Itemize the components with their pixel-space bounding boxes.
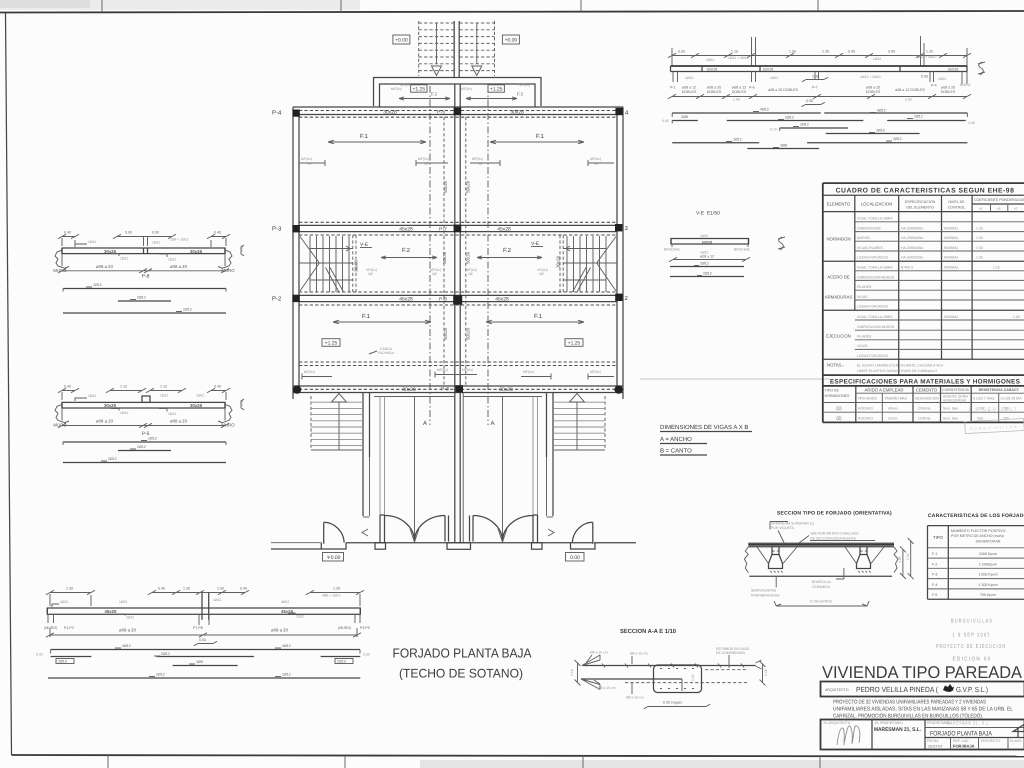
- svg-text:1Ø12: 1Ø12: [700, 234, 708, 238]
- svg-text:B-400 S: B-400 S: [901, 266, 914, 270]
- porch column left: [375, 397, 386, 550]
- level box +1.25 bottom-right: [565, 339, 583, 347]
- dashed lines above bottom beam: [299, 362, 617, 366]
- architect box: [821, 682, 1024, 697]
- svg-text:EL PROPIETARIO: EL PROPIETARIO: [875, 721, 903, 725]
- svg-text:45x28: 45x28: [495, 296, 509, 302]
- beam label P-7: [439, 226, 447, 232]
- rotated labels 50x28 center wall bottom room: [443, 328, 471, 340]
- svg-text:VIGAS: VIGAS: [857, 295, 868, 299]
- svg-text:1Ø: 1Ø: [368, 272, 373, 276]
- svg-text:0.40: 0.40: [240, 587, 247, 591]
- column P-3 right (3): [615, 224, 622, 231]
- svg-text:50x28: 50x28: [443, 328, 448, 340]
- svg-text:MF(Xx): MF(Xx): [590, 157, 601, 161]
- svg-text:POR METRO DE ANCHO (mxKp: POR METRO DE ANCHO (mxKp: [951, 534, 1004, 538]
- svg-text:1Ø12: 1Ø12: [706, 58, 714, 62]
- svg-text:4Ø12: 4Ø12: [60, 600, 68, 604]
- level box 0.00 right: [566, 553, 585, 562]
- F.2 label right: [477, 247, 542, 259]
- beam bar top-right: [671, 66, 968, 72]
- svg-text:P-3: P-3: [272, 226, 282, 233]
- svg-text:3Ø8: 3Ø8: [780, 144, 787, 148]
- svg-text:CEMENTO: CEMENTO: [916, 388, 938, 393]
- svg-text:MF(Xx): MF(Xx): [437, 368, 448, 372]
- supports below beam bar: [673, 72, 967, 85]
- seccion A-A dashes right: [625, 670, 749, 683]
- svg-text:(1): (1): [836, 406, 842, 411]
- svg-text:F.1: F.1: [362, 313, 371, 320]
- svg-text:0.30 (vigas): 0.30 (vigas): [663, 701, 682, 705]
- svg-text:1.50: 1.50: [789, 50, 796, 54]
- svg-text:10-07-07: 10-07-07: [928, 745, 942, 749]
- svg-text:2Ø8: 2Ø8: [681, 115, 688, 119]
- beam label 30x28 top right: [510, 109, 524, 115]
- svg-text:4Ø8 + 2Ø12: 4Ø8 + 2Ø12: [322, 594, 341, 598]
- svg-text:DE COMPRESION: DE COMPRESION: [716, 651, 745, 655]
- dim ticks bottom room: [302, 368, 477, 380]
- svg-text:MF(Xx): MF(Xx): [304, 370, 315, 374]
- svg-text:MF(Xx): MF(Xx): [462, 368, 473, 372]
- svg-text:DOBLES: DOBLES: [866, 90, 881, 94]
- seccion A-A bottom dim: [644, 701, 710, 709]
- seccion A-A left hooks: [581, 655, 600, 690]
- F.1 label bottom-right room: [486, 313, 584, 324]
- svg-text:F.2: F.2: [402, 247, 411, 254]
- svg-text:F.1: F.1: [534, 313, 543, 320]
- svg-text:0.08: 0.08: [764, 669, 768, 676]
- svg-text:2Ø12: 2Ø12: [161, 652, 170, 656]
- beam bar P1P2: [47, 593, 360, 620]
- svg-text:0.50: 0.50: [199, 638, 206, 642]
- column P-3 left: [292, 225, 299, 232]
- svg-text:0.30: 0.30: [906, 553, 910, 560]
- svg-text:1.10: 1.10: [160, 385, 167, 389]
- svg-text:A: A: [491, 420, 495, 427]
- svg-text:1Ø12: 1Ø12: [88, 394, 96, 398]
- signature block frame: [821, 720, 1024, 750]
- especificaciones title: [823, 375, 1024, 422]
- beam label 30x28 top left: [383, 109, 397, 115]
- svg-text:F-1: F-1: [932, 552, 937, 556]
- level box +1.25 bottom-left: [322, 339, 340, 347]
- svg-text:0.40: 0.40: [158, 587, 165, 591]
- svg-text:+1.25: +1.25: [568, 341, 581, 347]
- svg-text:MOMENTO FLECTOR POSITIVO: MOMENTO FLECTOR POSITIVO: [951, 529, 1006, 533]
- rotated labels 50x28 center wall top room: [443, 181, 471, 193]
- F.1 label top-right room: [490, 133, 584, 144]
- beam 30x28 bottom: [293, 386, 623, 393]
- column P-5 top center: [454, 108, 462, 116]
- svg-text:IGUAL TODA LA OBRA: IGUAL TODA LA OBRA: [857, 217, 893, 221]
- beam 45x28 P-2: [299, 292, 617, 305]
- rebar row5: [672, 137, 967, 143]
- V-E rebar lines: [670, 262, 744, 267]
- svg-text:ELEMENTO: ELEMENTO: [827, 202, 851, 207]
- center wall base notch: [447, 543, 471, 550]
- carga fachada note: [369, 347, 395, 355]
- rotated labels 50x28 center wall middle band: [442, 252, 471, 264]
- column P-7 center: [454, 225, 462, 233]
- svg-text:CIMENTACION: CIMENTACION: [857, 226, 881, 230]
- svg-text:MF(Xx): MF(Xx): [301, 157, 312, 161]
- V-E title: [696, 211, 720, 217]
- rebar lines below P-5: [63, 437, 226, 446]
- dims above P-8 detail: [58, 231, 230, 248]
- svg-text:P-8: P-8: [142, 274, 150, 280]
- svg-text:1Ø12: 1Ø12: [770, 76, 778, 80]
- svg-text:A LOS 7 DIAS: A LOS 7 DIAS: [973, 397, 995, 401]
- svg-text:1Ø12 + 4Ø12: 1Ø12 + 4Ø12: [916, 55, 937, 59]
- svg-text:F.3: F.3: [517, 91, 523, 96]
- vigueta left: [769, 547, 783, 573]
- svg-text:ø08 a 20: ø08 a 20: [170, 419, 188, 424]
- svg-text:50x28: 50x28: [466, 328, 471, 340]
- svg-text:SECCION TIPO DE FORJADO (ORIEN: SECCION TIPO DE FORJADO (ORIENTATIVA): [777, 511, 892, 517]
- svg-text:2Ø12: 2Ø12: [108, 457, 117, 461]
- grid label 3: [625, 225, 629, 232]
- table frame: [823, 183, 1024, 375]
- signature scribble: [837, 726, 860, 745]
- svg-text:HA-25/B/20/IIa: HA-25/B/20/IIa: [901, 246, 923, 250]
- fold mark top-right: [581, 0, 818, 12]
- svg-text:1Ø12: 1Ø12: [213, 598, 221, 602]
- rebar row1: [672, 108, 967, 118]
- svg-text:NORMAL: NORMAL: [944, 246, 959, 250]
- svg-text:PROYECTO DE 32 VIVIENDAS UNIFA: PROYECTO DE 32 VIVIENDAS UNIFAMILIARES P…: [833, 700, 986, 706]
- rebar row4 P1P2: [48, 673, 360, 679]
- svg-text:Ø8 a 15 cm: Ø8 a 15 cm: [598, 686, 616, 690]
- svg-text:LOSAS-FORJADOS: LOSAS-FORJADOS: [857, 305, 889, 309]
- svg-text:VIGAS: VIGAS: [857, 344, 868, 348]
- svg-text:PROYECTO DE EJECUCION: PROYECTO DE EJECUCION: [936, 644, 1006, 650]
- svg-text:2Ø12: 2Ø12: [126, 616, 134, 620]
- svg-text:45x28: 45x28: [399, 226, 413, 232]
- tiny labels around bar P1P2: [52, 598, 304, 620]
- svg-text:P7,P8: P7,P8: [193, 626, 203, 630]
- svg-text:ø08 a 12: ø08 a 12: [682, 86, 696, 90]
- rebar row3: [770, 123, 848, 132]
- stamp proyecto de ejecucion: [936, 644, 1006, 650]
- porch wall right: [547, 393, 554, 517]
- DIMENSIONES notes: [660, 424, 752, 432]
- faint stamp over table: [965, 407, 1024, 434]
- V-E beam bar: [671, 234, 749, 244]
- svg-text:TIPO DE: TIPO DE: [825, 389, 840, 393]
- svg-text:1Ø: 1Ø: [539, 272, 544, 276]
- svg-text:IGUAL TODA LA OBRA: IGUAL TODA LA OBRA: [857, 315, 893, 319]
- svg-text:A = ANCHO: A = ANCHO: [660, 436, 692, 443]
- exterior door right: [572, 522, 593, 544]
- column P-8 bottom center: [455, 385, 463, 392]
- fold mark top-mid: [340, 0, 342, 12]
- svg-text:1Ø: 1Ø: [594, 162, 599, 166]
- left break edge: [744, 547, 748, 573]
- svg-text:P-4: P-4: [272, 110, 282, 117]
- svg-text:MF(Xx): MF(Xx): [461, 87, 472, 91]
- section line A-A right: [488, 86, 495, 427]
- svg-text:F-4: F-4: [932, 583, 937, 587]
- svg-text:0.70m APROX: 0.70m APROX: [810, 600, 833, 604]
- section line A-A left: [423, 86, 430, 427]
- svg-text:ARQUITECTO: ARQUITECTO: [825, 688, 849, 692]
- svg-text:P-2: P-2: [272, 296, 282, 303]
- svg-text:CONTROL: CONTROL: [948, 206, 966, 210]
- svg-text:50X28: 50X28: [763, 68, 773, 72]
- svg-text:ø08 a 20: ø08 a 20: [170, 264, 188, 269]
- svg-text:30x28: 30x28: [190, 249, 203, 254]
- svg-text:2Ø12: 2Ø12: [183, 308, 192, 312]
- svg-text:LOCALIZACION: LOCALIZACION: [861, 202, 893, 207]
- beam label 45x28 P-3 left: [399, 226, 413, 232]
- svg-text:30x28: 30x28: [402, 387, 416, 393]
- dim 0.08 right P-5: [240, 399, 244, 410]
- svg-text:1Ø8 + 1Ø12: 1Ø8 + 1Ø12: [170, 238, 189, 242]
- double door left dwelling: [385, 516, 445, 543]
- svg-text:SIN MAYORAR: SIN MAYORAR: [976, 540, 1001, 544]
- svg-text:HA-25/B/40/IIa: HA-25/B/40/IIa: [901, 236, 923, 240]
- svg-text:2Ø12: 2Ø12: [703, 272, 712, 276]
- svg-text:1Ø12: 1Ø12: [120, 257, 128, 261]
- porch wall left: [363, 393, 370, 517]
- caracteristicas table: [928, 526, 1024, 600]
- svg-text:Ø8 a 15 cm: Ø8 a 15 cm: [590, 651, 608, 655]
- svg-text:ø08 a 20 DOBLES: ø08 a 20 DOBLES: [768, 88, 798, 92]
- svg-text:1Ø12: 1Ø12: [119, 600, 127, 604]
- svg-text:2Ø12: 2Ø12: [137, 445, 146, 449]
- svg-text:4Ø12: 4Ø12: [877, 109, 886, 113]
- svg-text:2Ø10: 2Ø10: [337, 660, 346, 664]
- svg-text:(TECHO DE SOTANO): (TECHO DE SOTANO): [399, 667, 523, 681]
- svg-text:+1.25: +1.25: [325, 341, 338, 347]
- door jambs: [445, 516, 473, 542]
- dashed partition middle band left: [354, 235, 359, 292]
- svg-text:0.40: 0.40: [214, 231, 221, 235]
- stamp edicion: [953, 657, 992, 663]
- svg-text:ø08 a 20: ø08 a 20: [866, 86, 880, 90]
- svg-text:1Ø12: 1Ø12: [685, 76, 693, 80]
- svg-text:1.50: 1.50: [217, 587, 224, 591]
- svg-text:P-7: P-7: [812, 86, 818, 90]
- svg-text:MF(Xx): MF(Xx): [523, 370, 534, 374]
- svg-text:DOBLES: DOBLES: [682, 90, 697, 94]
- rebar lines below P-8: [63, 283, 226, 292]
- scan shading top: [0, 0, 360, 10]
- svg-text:1.30: 1.30: [66, 587, 73, 591]
- svg-text:1Ø12: 1Ø12: [873, 57, 881, 61]
- V-E brochal labels: [664, 244, 751, 252]
- rebar row6: [747, 144, 819, 149]
- svg-text:HORMIGON: HORMIGON: [826, 237, 850, 242]
- svg-text:PILARES: PILARES: [857, 285, 872, 289]
- svg-text:2Ø12: 2Ø12: [93, 283, 102, 287]
- rebar row2: [662, 115, 975, 126]
- dim below P-5 detail: [58, 419, 229, 438]
- svg-text:0.95: 0.95: [888, 50, 895, 54]
- F.1 label bottom-left room: [333, 313, 431, 324]
- guide verticals above beam: [672, 36, 967, 66]
- level box +0.00 left: [393, 35, 410, 44]
- svg-text:LOSAS-FORJADOS: LOSAS-FORJADOS: [857, 354, 889, 358]
- svg-text:ø08 a 20: ø08 a 20: [119, 628, 137, 633]
- ejecucion rows: [823, 315, 1024, 359]
- rebar spec text row: [670, 83, 971, 94]
- el arquitecto cell: [824, 721, 851, 725]
- svg-text:BROCHAL: BROCHAL: [664, 248, 681, 252]
- svg-text:45x28: 45x28: [497, 226, 511, 232]
- svg-text:0.70: 0.70: [770, 128, 777, 132]
- svg-text:1Ø12 + 2Ø10: 1Ø12 + 2Ø10: [860, 75, 881, 79]
- svg-text:SEMIVIGUETAS: SEMIVIGUETAS: [751, 589, 777, 593]
- svg-text:1.30: 1.30: [822, 50, 829, 54]
- svg-text:COEFICIENTE PONDERACION: COEFICIENTE PONDERACION: [974, 198, 1024, 202]
- el propietario cell: [874, 721, 921, 733]
- svg-text:0.25: 0.25: [898, 556, 902, 563]
- svg-text:1.50: 1.50: [976, 246, 983, 250]
- svg-text:30x28: 30x28: [104, 249, 117, 254]
- armadura superior label: [770, 522, 814, 543]
- double door right dwelling: [473, 516, 533, 543]
- svg-text:+0.00: +0.00: [395, 38, 408, 44]
- svg-text:2Ø12: 2Ø12: [296, 615, 304, 619]
- svg-text:2Ø10: 2Ø10: [876, 129, 885, 133]
- ground line: [271, 543, 636, 549]
- svg-text:ø08 a 20: ø08 a 20: [96, 264, 114, 269]
- svg-text:45x28: 45x28: [399, 296, 413, 302]
- rebar row3 P1P2: [173, 660, 238, 666]
- beam label 45x28 P-3 right: [497, 226, 511, 232]
- svg-text:1.20: 1.20: [926, 50, 933, 54]
- svg-text:PREFABRICADAS: PREFABRICADAS: [751, 593, 780, 597]
- svg-text:∓0.00: ∓0.00: [327, 555, 341, 561]
- svg-text:0.90: 0.90: [125, 231, 132, 235]
- svg-text:1.100 Kpxm: 1.100 Kpxm: [978, 583, 997, 587]
- svg-text:1Ø12: 1Ø12: [168, 412, 176, 416]
- svg-text:LIMITE ELASTICO GARANTIZADO DE: LIMITE ELASTICO GARANTIZADO DE 2.600kp/c…: [857, 369, 937, 373]
- muro support right of P-8: [218, 250, 235, 273]
- svg-text:MURO: MURO: [960, 83, 971, 87]
- grid label 2: [625, 295, 629, 302]
- supports P1P2: [48, 614, 360, 625]
- column P-4 left: [293, 110, 300, 117]
- svg-text:2Ø12: 2Ø12: [156, 673, 165, 677]
- svg-text:NORMAL: NORMAL: [944, 315, 959, 319]
- column P-2 left: [292, 295, 299, 302]
- svg-text:TIPO ARIDO: TIPO ARIDO: [858, 397, 878, 401]
- porch ceiling lines: [374, 396, 542, 398]
- bottom line seccion tipo: [749, 575, 892, 577]
- svg-text:30x28: 30x28: [556, 256, 561, 268]
- svg-text:Ø8 a 15 cm: Ø8 a 15 cm: [626, 696, 644, 700]
- F.1 label top-left room: [328, 133, 426, 144]
- svg-text:2Ø12: 2Ø12: [148, 437, 157, 441]
- dim ticks top room: [299, 157, 448, 166]
- svg-text:30x28: 30x28: [499, 387, 513, 393]
- porch bump walls top: [374, 78, 542, 108]
- svg-text:1.15: 1.15: [993, 266, 1000, 270]
- tiny rebar labels P-5 detail: [75, 394, 204, 417]
- column bottom-left circle: [293, 385, 301, 393]
- svg-text:1 8 SEP 2007: 1 8 SEP 2007: [968, 407, 1018, 413]
- svg-text:2Ø12: 2Ø12: [282, 673, 291, 677]
- support labels P1P2: [44, 626, 370, 633]
- svg-text:G.V.P. S.L.): G.V.P. S.L.): [956, 685, 988, 694]
- rebar lines top-right: 0.50 dim: [801, 99, 824, 107]
- svg-text:30x28: 30x28: [510, 109, 524, 115]
- svg-text:P-1: P-1: [670, 86, 676, 90]
- level box +1.25 bump right: [488, 85, 504, 93]
- svg-text:B = CANTO: B = CANTO: [660, 448, 692, 455]
- svg-text:ø08 a 12: ø08 a 12: [732, 86, 746, 90]
- dim 0.50 center P1P2: [194, 638, 217, 646]
- svg-text:0.50: 0.50: [806, 99, 813, 103]
- canopy edge lines above doors: [415, 397, 503, 540]
- scan shading bottom: [420, 760, 1024, 768]
- stair bottom-left: [311, 394, 362, 451]
- 0.50 dim right: [921, 75, 928, 79]
- svg-text:0.40: 0.40: [214, 385, 221, 389]
- svg-text:DE SECCION EQUIVALENTE: DE SECCION EQUIVALENTE: [811, 536, 857, 540]
- svg-text:P-7: P-7: [439, 226, 447, 232]
- propietario cell: [925, 721, 1024, 728]
- svg-text:DOBLES: DOBLES: [707, 90, 722, 94]
- dim 0.08 right P-8: [240, 245, 244, 256]
- svg-text:P-6: P-6: [749, 86, 755, 90]
- svg-text:CIMENTACION-MUROS: CIMENTACION-MUROS: [857, 325, 895, 329]
- muro support left of P-5: [53, 404, 69, 427]
- right break edge: [894, 547, 898, 573]
- svg-text:FORJBAJA: FORJBAJA: [953, 744, 975, 749]
- svg-text:P-6: P-6: [439, 296, 447, 302]
- svg-text:DOBLES: DOBLES: [941, 90, 956, 94]
- svg-text:MF(Xx): MF(Xx): [519, 83, 530, 87]
- dims above P-5 detail: [58, 385, 230, 401]
- grid label P-2: [272, 296, 282, 303]
- svg-text:2Ø12: 2Ø12: [137, 296, 146, 300]
- svg-text:5Ø6 POR METRO O MALLAZO: 5Ø6 POR METRO O MALLAZO: [811, 532, 860, 536]
- svg-text:SECCION A-A E 1/10: SECCION A-A E 1/10: [620, 628, 677, 635]
- seccion A-A right dim: [760, 661, 769, 686]
- svg-text:EJECUCION: EJECUCION: [826, 334, 851, 339]
- svg-text:0.40: 0.40: [64, 385, 71, 389]
- svg-text:MF(Xx): MF(Xx): [472, 157, 483, 161]
- level box +0.00 right: [502, 35, 519, 44]
- V-E label right: [531, 241, 543, 247]
- svg-text:A LOS 28 DIA: A LOS 28 DIA: [1001, 397, 1023, 401]
- svg-text:Som. blan: Som. blan: [943, 417, 958, 421]
- section squiggle mark right: [978, 62, 985, 75]
- svg-text:45x28: 45x28: [105, 609, 118, 614]
- svg-text:ARIDO A EMPLEAR: ARIDO A EMPLEAR: [865, 388, 904, 393]
- svg-text:50X28: 50X28: [702, 240, 712, 244]
- svg-text:(MURO): (MURO): [44, 626, 57, 630]
- svg-text:BROCHAL: BROCHAL: [734, 248, 751, 252]
- svg-text:CUADRO DE CARACTERISTICAS SEGU: CUADRO DE CARACTERISTICAS SEGUN EHE-98: [836, 188, 1015, 195]
- svg-text:MF(Xx): MF(Xx): [400, 83, 411, 87]
- svg-text:2Ø12: 2Ø12: [800, 123, 809, 127]
- svg-text:2Ø12: 2Ø12: [914, 115, 923, 119]
- title (TECHO DE SOTANO): [399, 667, 523, 681]
- svg-text:50x28: 50x28: [466, 252, 471, 264]
- bottom info row: [927, 738, 1022, 750]
- beam label 30x28 bottom right: [499, 387, 513, 393]
- column P-2 right: [615, 294, 622, 301]
- vigueta right: [857, 547, 871, 573]
- svg-text:0.45: 0.45: [848, 50, 855, 54]
- svg-text:NOTAS.-: NOTAS.-: [827, 363, 845, 368]
- svg-text:50X28: 50X28: [948, 68, 958, 72]
- tiny labels middle band: [366, 268, 548, 276]
